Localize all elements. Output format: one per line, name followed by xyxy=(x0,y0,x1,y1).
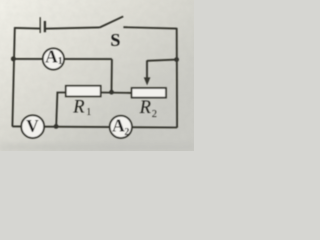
svg-text:1: 1 xyxy=(58,56,63,67)
wire: R1 right end to R2 left end xyxy=(101,92,132,94)
svg-text:V: V xyxy=(26,116,39,136)
svg-text:2: 2 xyxy=(124,127,129,138)
wire: bottom of loop xyxy=(12,126,177,127)
switch S blade (open) xyxy=(100,16,124,27)
faint darker band along bottom edge of scan xyxy=(0,143,194,151)
wire: top-left corner to battery positive plate xyxy=(15,27,40,30)
svg-text:2: 2 xyxy=(152,109,157,120)
wire: A1 rail from left edge xyxy=(13,58,112,60)
junction dot: bottom wire / R1 branch xyxy=(54,124,59,129)
svg-text:A: A xyxy=(112,115,125,135)
voltmeter V xyxy=(21,115,44,138)
wire: left edge of loop xyxy=(12,27,14,126)
battery cell: short thick negative plate xyxy=(44,21,46,32)
junction dot: left edge / A1 rail xyxy=(11,56,16,61)
svg-text:R: R xyxy=(72,97,84,117)
paper background xyxy=(0,0,194,151)
svg-text:R: R xyxy=(139,98,151,118)
svg-text:A: A xyxy=(45,46,58,66)
svg-text:S: S xyxy=(110,30,120,50)
junction dot: R1/R2 node xyxy=(109,90,114,95)
resistor R1 box xyxy=(66,86,101,97)
junction dot: right edge / wiper xyxy=(174,57,179,62)
wire: A1 rail corner down to R1/R2 node xyxy=(111,59,113,92)
wire: R1 left stub and branch down to bottom wire xyxy=(56,93,66,127)
rheostat R2 box xyxy=(132,88,166,98)
ammeter A2 xyxy=(110,116,132,138)
battery cell: long positive plate xyxy=(39,17,41,33)
wire: battery to switch left contact xyxy=(45,27,100,28)
wire: right edge of loop xyxy=(176,28,178,128)
wire: rheostat wiper horizontal from right edge xyxy=(147,60,177,61)
wire: switch right contact to top-right corner xyxy=(123,27,176,28)
wire: rheostat wiper vertical xyxy=(146,60,148,77)
arrowhead of wiper onto R2 xyxy=(144,77,151,85)
svg-text:1: 1 xyxy=(86,107,91,118)
ammeter A1 xyxy=(43,48,64,69)
